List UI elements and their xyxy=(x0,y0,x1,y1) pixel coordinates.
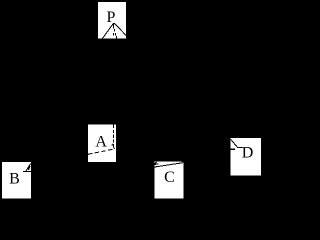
D fold diagonal xyxy=(231,139,238,147)
D fold bar xyxy=(230,149,234,150)
B fold diagonal xyxy=(26,164,31,172)
svg-text:P: P xyxy=(107,9,116,26)
svg-text:A: A xyxy=(95,133,107,150)
A dashed vertical dash 2 xyxy=(113,130,114,133)
tent dashed crease dash 5 xyxy=(116,36,117,39)
C corner fold tick xyxy=(155,162,157,164)
tent dashed crease dash 1 xyxy=(113,24,114,29)
card P xyxy=(98,2,126,39)
card A xyxy=(88,124,116,162)
D fold shaft xyxy=(237,147,243,148)
B fold base line xyxy=(23,171,31,172)
tent dashed crease dash 3 xyxy=(113,33,114,36)
card C xyxy=(155,161,184,198)
C fold crease line xyxy=(155,163,183,167)
A dashed vertical dash 4 xyxy=(113,139,114,142)
A dashed diagonal xyxy=(88,149,115,154)
A dashed vertical dash 1 xyxy=(113,125,114,129)
tent right slope xyxy=(114,23,126,35)
svg-text:C: C xyxy=(164,169,175,186)
C corner fold line xyxy=(155,163,159,166)
B fold inner crease xyxy=(28,166,30,170)
A dashed vertical dash 3 xyxy=(113,135,114,138)
tent dashed crease dash 2 xyxy=(114,29,115,32)
card D xyxy=(230,138,261,175)
card B xyxy=(2,162,31,199)
A arrow dot xyxy=(111,142,114,145)
tent left slope xyxy=(102,23,113,39)
svg-text:D: D xyxy=(242,145,254,162)
svg-text:B: B xyxy=(9,170,20,187)
tent dashed crease dash 4 xyxy=(115,33,116,36)
A arrow stem xyxy=(113,144,114,148)
A arrow left barb xyxy=(112,145,113,146)
A arrow tick xyxy=(113,147,114,149)
